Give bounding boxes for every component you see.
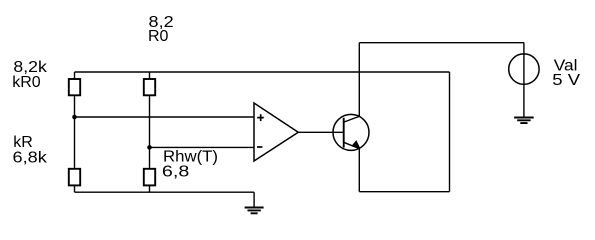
transistor Q1 collector diagonal: [344, 116, 360, 122]
wire inverting input: [150, 146, 255, 148]
svg-text:6,8: 6,8: [162, 164, 190, 181]
transistor Q1 emitter diagonal: [344, 142, 360, 148]
op-amp minus label: [257, 146, 262, 148]
voltage source Val line: [523, 43, 525, 118]
transistor Q1 circle: [333, 114, 369, 150]
wire col2 middle: [149, 95, 151, 169]
wire bridge bottom rail: [75, 191, 255, 193]
svg-text:kR0: kR0: [12, 74, 41, 91]
wire right edge up to rail: [449, 72, 451, 192]
resistor Rhw(T) 6,8: [144, 169, 155, 186]
op-amp U1: [254, 103, 298, 161]
ground right bars: [514, 118, 534, 124]
resistor kR0 8,2k: [69, 79, 80, 95]
wire col1 middle: [74, 95, 76, 169]
resistor kR 6,8k: [69, 169, 80, 186]
wire emitter bottom run: [359, 191, 449, 193]
svg-text:6,8k: 6,8k: [13, 150, 48, 167]
ground center stem: [253, 192, 255, 207]
node B junction dot: [147, 145, 152, 150]
op-amp plus label: [257, 114, 264, 121]
wire stub bottom of Rhw: [149, 185, 151, 192]
node A junction dot: [72, 115, 77, 120]
resistor R0 8,2: [144, 79, 155, 95]
svg-text:kR: kR: [13, 134, 33, 151]
voltage source Val circle: [509, 54, 539, 84]
wire noninverting input: [75, 116, 255, 118]
wire stub top of R1: [74, 72, 76, 79]
wire emitter down: [358, 149, 360, 192]
wire stub bottom of R2: [74, 185, 76, 192]
wire bridge top rail: [75, 71, 450, 73]
transistor Q1 emitter arrow: [352, 140, 361, 148]
wire top supply: [359, 42, 524, 44]
svg-text:5 V: 5 V: [552, 72, 580, 89]
wire collector up: [358, 43, 360, 117]
wire op-amp output to base: [298, 131, 343, 133]
wire stub top of R3: [149, 72, 151, 79]
svg-text:R0: R0: [148, 28, 169, 45]
transistor Q1 base bar: [343, 118, 345, 148]
ground center bars: [245, 208, 264, 214]
